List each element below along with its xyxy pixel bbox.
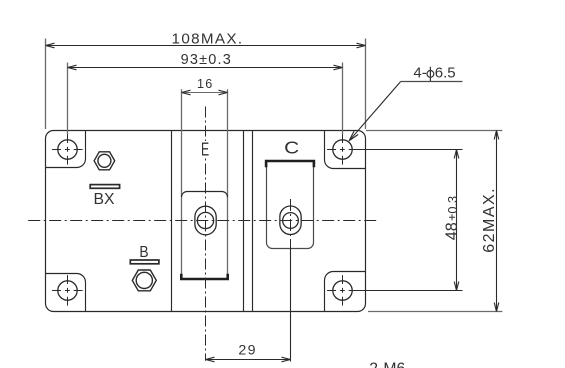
svg-text:4-: 4- bbox=[413, 65, 426, 82]
dimension line 16 bbox=[182, 92, 228, 94]
E terminal left edge / extension line bbox=[181, 89, 183, 277]
internal mold line 3 bbox=[252, 131, 254, 312]
svg-text:62MAX.: 62MAX. bbox=[481, 187, 498, 253]
BX terminal bar bbox=[90, 185, 119, 189]
dimension 93 extension left bbox=[67, 63, 69, 135]
E centerline bbox=[205, 107, 207, 361]
svg-text:2-M6: 2-M6 bbox=[369, 361, 405, 368]
dimension text 62MAX bbox=[481, 187, 498, 253]
arrow 62 top bbox=[494, 131, 499, 140]
arrow 29 left bbox=[206, 357, 215, 362]
dim 48 extension bottom bbox=[352, 290, 463, 292]
E label bbox=[200, 141, 210, 156]
svg-text:±0.3: ±0.3 bbox=[445, 196, 460, 221]
BX hex nut bbox=[94, 152, 115, 170]
arrow 108 right bbox=[357, 43, 366, 48]
arrow 29 right bbox=[282, 357, 291, 362]
dimension line 62 bbox=[496, 131, 498, 312]
internal mold line 1 bbox=[171, 131, 173, 312]
arrow 93 left bbox=[68, 65, 77, 70]
C screw head bbox=[283, 213, 299, 229]
C terminal bold top edge bbox=[266, 161, 314, 167]
E screw head bbox=[197, 212, 213, 228]
module body outline bbox=[46, 131, 366, 312]
mounting hole bottom-right bbox=[327, 275, 359, 307]
dim 62 extension top bbox=[366, 130, 502, 132]
dimension 108MAX extension left bbox=[45, 39, 47, 130]
B hex nut bbox=[132, 270, 156, 291]
svg-text:E: E bbox=[201, 138, 209, 159]
B hex circle bbox=[136, 272, 152, 288]
dimension line 93 bbox=[68, 67, 343, 69]
arrow 16 right bbox=[219, 90, 228, 95]
dimension 108MAX extension right bbox=[365, 39, 367, 130]
C centerline upper bbox=[290, 199, 292, 249]
corner tab top-left bbox=[46, 131, 86, 168]
svg-text:48: 48 bbox=[443, 222, 461, 240]
dimension line 48 bbox=[456, 150, 458, 291]
svg-text:29: 29 bbox=[238, 342, 256, 358]
corner tab bottom-left bbox=[46, 274, 86, 312]
dim 62 extension bottom bbox=[368, 311, 502, 313]
arrow 108 left bbox=[46, 43, 55, 48]
leader diagonal line bbox=[349, 82, 401, 141]
dimension text 48 bbox=[443, 196, 461, 240]
arrow 16 left bbox=[182, 90, 191, 95]
corner tab top-right bbox=[325, 131, 366, 169]
C screw slot bbox=[280, 206, 301, 235]
C clamp outline bbox=[267, 167, 314, 249]
svg-text:C: C bbox=[284, 138, 299, 158]
svg-text:B: B bbox=[139, 244, 148, 261]
svg-text:93±0.3: 93±0.3 bbox=[181, 52, 232, 68]
C centerline lower bbox=[290, 249, 292, 362]
svg-text:6.5: 6.5 bbox=[435, 65, 456, 82]
mounting hole bottom-left bbox=[52, 275, 84, 307]
arrow 62 bottom bbox=[494, 303, 499, 312]
mounting hole top-left bbox=[52, 134, 84, 166]
arrow 48 top bbox=[454, 150, 459, 159]
phi symbol bbox=[427, 67, 434, 81]
arrow 48 bottom bbox=[454, 282, 459, 291]
E terminal bold bottom edge bbox=[181, 274, 227, 279]
dim 48 extension top bbox=[352, 149, 463, 151]
arrow 93 right bbox=[334, 65, 343, 70]
svg-text:108MAX.: 108MAX. bbox=[172, 30, 244, 47]
BX hex circle bbox=[98, 154, 111, 167]
corner tab bottom-right bbox=[325, 272, 366, 312]
E clamp top edge bbox=[182, 192, 228, 198]
leader horizontal line bbox=[401, 81, 463, 83]
svg-text:16: 16 bbox=[197, 77, 213, 91]
internal mold line 2 bbox=[243, 131, 245, 312]
dimension line 108MAX bbox=[46, 45, 366, 47]
dimension line 29 bbox=[206, 359, 291, 361]
leader arrowhead bbox=[349, 131, 358, 141]
svg-text:BX: BX bbox=[94, 191, 115, 208]
dimension 93 extension right bbox=[342, 63, 344, 135]
B terminal bar bbox=[130, 260, 159, 264]
E terminal right edge / extension line bbox=[227, 89, 229, 277]
main horizontal centerline bbox=[28, 220, 379, 222]
mounting hole top-right bbox=[327, 134, 359, 166]
E screw slot bbox=[195, 206, 216, 235]
